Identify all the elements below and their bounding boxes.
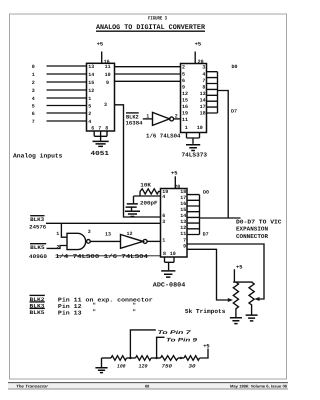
svg-text:10: 10 bbox=[197, 125, 203, 131]
svg-text:D0: D0 bbox=[232, 64, 238, 70]
svg-text:11: 11 bbox=[180, 231, 186, 237]
svg-text:ADC-0804: ADC-0804 bbox=[153, 282, 186, 289]
analog input wire 0 bbox=[32, 64, 87, 70]
svg-text:3: 3 bbox=[162, 219, 165, 225]
svg-text:6: 6 bbox=[182, 78, 185, 84]
trimpot R right 5k bbox=[249, 282, 254, 314]
inverter U6 1/6 74LS04 bbox=[121, 231, 148, 248]
label D0 upper bbox=[232, 64, 238, 70]
title FIGURE 3 bbox=[148, 16, 167, 22]
+5 supply at trimpots bbox=[233, 264, 252, 282]
svg-text:15: 15 bbox=[88, 80, 94, 86]
svg-text:2: 2 bbox=[32, 80, 35, 86]
legend net BLK5 pin 13 bbox=[30, 308, 136, 316]
svg-text:8: 8 bbox=[202, 85, 205, 91]
svg-text:3: 3 bbox=[32, 88, 35, 94]
label D0 lower bbox=[203, 189, 209, 195]
svg-text:14: 14 bbox=[88, 72, 94, 78]
svg-text:3: 3 bbox=[202, 65, 205, 71]
legend net BLK2 pin 11 bbox=[30, 295, 154, 303]
wire 4051 pin9 to 373 pin6 bbox=[115, 80, 181, 82]
resistor R100 bbox=[111, 356, 127, 370]
title ANALOG TO DIGITAL CONVERTER bbox=[96, 24, 206, 32]
svg-text:D0-D7 TO VIC: D0-D7 TO VIC bbox=[236, 218, 282, 225]
wire 4051 pin3 to ADC pin6 bbox=[115, 105, 161, 217]
svg-text:19: 19 bbox=[182, 111, 188, 117]
svg-text:5: 5 bbox=[88, 103, 91, 109]
resistor 10K bbox=[140, 182, 161, 195]
svg-text:5: 5 bbox=[182, 72, 185, 78]
analog input wire 1 bbox=[32, 72, 87, 78]
svg-text:120: 120 bbox=[139, 364, 148, 370]
svg-text:2: 2 bbox=[56, 244, 59, 250]
svg-text:5: 5 bbox=[32, 103, 35, 109]
svg-text:To Pin 7: To Pin 7 bbox=[158, 330, 193, 336]
svg-text:13: 13 bbox=[200, 91, 206, 97]
data bus stubs of ADC bbox=[187, 195, 200, 235]
wire 4051 pin10 to 373 pin5 bbox=[115, 73, 181, 75]
analog input wire 5 bbox=[32, 103, 87, 109]
svg-text:7: 7 bbox=[32, 119, 35, 125]
svg-text:200pF: 200pF bbox=[140, 200, 158, 207]
svg-text:1: 1 bbox=[32, 72, 35, 78]
svg-text:+5: +5 bbox=[171, 170, 177, 176]
label Analog inputs bbox=[13, 153, 63, 160]
svg-text:7: 7 bbox=[202, 78, 205, 84]
svg-text:D7: D7 bbox=[231, 109, 237, 115]
svg-text:2: 2 bbox=[88, 111, 91, 117]
svg-text:+5: +5 bbox=[203, 344, 209, 350]
svg-text:11: 11 bbox=[105, 64, 111, 70]
svg-text:+5: +5 bbox=[236, 264, 242, 270]
svg-text:4051: 4051 bbox=[91, 150, 110, 157]
wire R30 to +5 bbox=[200, 344, 210, 358]
wire ADC pin7 to right trimpot wiper bbox=[187, 244, 264, 301]
ground at left trimpot bbox=[230, 318, 242, 324]
svg-text:1: 1 bbox=[185, 125, 188, 131]
ground at divider left end bbox=[95, 358, 107, 373]
inverter U3 1/6 74LS04 bbox=[153, 112, 174, 125]
label D0-D7 TO VIC EXPANSION CONNECTOR bbox=[236, 218, 282, 239]
IC U1 4051 analog multiplexer bbox=[87, 59, 115, 132]
wire resistor to ADC pin 4 bbox=[134, 191, 161, 196]
label 4051 bbox=[91, 150, 110, 157]
svg-text:10: 10 bbox=[170, 251, 176, 257]
svg-text:1: 1 bbox=[162, 238, 165, 244]
svg-text:7: 7 bbox=[98, 125, 101, 131]
net label BLK5 40960 bbox=[29, 244, 47, 260]
svg-text:8: 8 bbox=[163, 251, 166, 257]
svg-text:14: 14 bbox=[200, 98, 206, 104]
resistor R120 bbox=[136, 356, 152, 370]
inverter U3 output pin2 wire to 373 pin11 bbox=[174, 114, 181, 120]
svg-text:+5: +5 bbox=[195, 41, 201, 47]
label D7 lower bbox=[203, 232, 209, 238]
svg-text:6: 6 bbox=[32, 111, 35, 117]
svg-text:13: 13 bbox=[105, 232, 111, 238]
svg-text:Pin 13: Pin 13 bbox=[58, 309, 82, 316]
svg-text:4: 4 bbox=[162, 194, 165, 200]
svg-text:24576: 24576 bbox=[29, 224, 46, 230]
legend net BLK3 pin 12 bbox=[30, 302, 136, 310]
ground at right trimpot bbox=[246, 315, 258, 321]
net label BLK3 24576 bbox=[29, 216, 46, 231]
ground at 4051 pins 6 7 8 bbox=[93, 131, 109, 146]
label 74LS373 bbox=[182, 151, 208, 158]
svg-text:10: 10 bbox=[105, 72, 111, 78]
svg-text:D7: D7 bbox=[203, 232, 209, 238]
analog input wire 2 bbox=[32, 80, 87, 86]
tap wire To Pin 7 bbox=[130, 330, 192, 358]
svg-text:3: 3 bbox=[88, 229, 91, 235]
svg-text:": " bbox=[93, 309, 96, 316]
analog input wire 3 bbox=[32, 88, 87, 94]
svg-text:10K: 10K bbox=[140, 182, 151, 189]
svg-text:12: 12 bbox=[88, 88, 94, 94]
ground at 373 pins 1 10 bbox=[186, 133, 200, 151]
svg-text:The Transactor: The Transactor bbox=[16, 384, 49, 389]
+5 supply at 74LS373 pin 20 bbox=[195, 41, 201, 63]
ground at capacitor bbox=[125, 207, 140, 216]
capacitor 200pF bbox=[126, 196, 158, 207]
svg-text:9: 9 bbox=[182, 85, 185, 91]
svg-text:11: 11 bbox=[182, 117, 188, 123]
svg-text:16384: 16384 bbox=[126, 120, 144, 126]
svg-text:4: 4 bbox=[202, 72, 205, 78]
footer rule top bbox=[8, 382, 288, 384]
svg-text:1/4 74LS00 1/6 74LS04: 1/4 74LS00 1/6 74LS04 bbox=[55, 253, 149, 260]
svg-text:6: 6 bbox=[91, 125, 94, 131]
svg-text:18: 18 bbox=[200, 111, 206, 117]
wire BLK2 to inverter U3 input pin1 bbox=[143, 114, 153, 120]
analog input wire 4 bbox=[32, 96, 87, 102]
svg-text:17: 17 bbox=[200, 104, 206, 110]
wire node junction bbox=[178, 357, 184, 359]
bus wire 373 to ADC bbox=[200, 91, 241, 219]
wire drop to NAND input 1 bbox=[56, 223, 67, 237]
wire node tap1 bbox=[127, 357, 136, 359]
svg-text:4: 4 bbox=[88, 119, 91, 125]
wire ground to R100 bbox=[102, 357, 112, 359]
label ADC-0804 bbox=[153, 282, 186, 289]
svg-text:0: 0 bbox=[32, 64, 35, 70]
footer rule bottom bbox=[8, 388, 288, 390]
+5 supply at ADC pin 20 bbox=[171, 170, 177, 188]
svg-text:1: 1 bbox=[56, 231, 59, 237]
svg-text:+5: +5 bbox=[97, 41, 103, 47]
svg-text:100: 100 bbox=[117, 364, 126, 370]
svg-text:16: 16 bbox=[182, 104, 188, 110]
svg-text:9: 9 bbox=[106, 80, 109, 86]
svg-text:9: 9 bbox=[183, 243, 186, 249]
data bus stubs of 74LS373 bbox=[207, 72, 218, 113]
+5 supply at 4051 pin 16 bbox=[97, 41, 103, 63]
wire under gate labels bbox=[58, 255, 161, 257]
svg-text:May 1986: Volume 6, Issue 06: May 1986: Volume 6, Issue 06 bbox=[230, 384, 288, 389]
label 1/6 74LS04 bbox=[146, 132, 181, 139]
label 1/4 74LS00 1/6 74LS04 bbox=[55, 253, 149, 260]
wire 4051 pin11 to 373 pin2 bbox=[115, 66, 181, 68]
resistor R750 bbox=[161, 356, 179, 370]
svg-text:13: 13 bbox=[88, 64, 94, 70]
svg-text:": " bbox=[133, 309, 136, 316]
tap wire To Pin 9 bbox=[157, 337, 198, 358]
wire inverter U6 output to ADC pin1 bbox=[147, 240, 160, 242]
svg-text:40960: 40960 bbox=[29, 254, 47, 260]
label 5k Trimpots bbox=[185, 308, 226, 315]
svg-text:BLK5: BLK5 bbox=[30, 245, 45, 251]
svg-text:8: 8 bbox=[105, 125, 108, 131]
wire BLK3 to NAND pin1 and ADC pin3 bbox=[46, 222, 161, 224]
svg-text:FIGURE 3: FIGURE 3 bbox=[148, 16, 167, 22]
resistor R30 bbox=[184, 356, 200, 370]
svg-text:3: 3 bbox=[104, 102, 107, 108]
NAND gate U5 1/4 74LS00 bbox=[67, 229, 91, 250]
svg-text:74LS373: 74LS373 bbox=[182, 151, 208, 158]
svg-text:2: 2 bbox=[175, 114, 178, 120]
ground at ADC pins 8 10 bbox=[161, 257, 175, 277]
svg-text:EXPANSION: EXPANSION bbox=[236, 226, 269, 233]
svg-text:15: 15 bbox=[182, 98, 188, 104]
label D7 upper bbox=[231, 109, 237, 115]
analog input wire 6 bbox=[32, 111, 87, 117]
svg-text:Analog inputs: Analog inputs bbox=[13, 153, 63, 160]
svg-text:12: 12 bbox=[127, 231, 133, 237]
footer band bbox=[8, 383, 288, 389]
svg-text:1/6 74LS04: 1/6 74LS04 bbox=[146, 132, 181, 139]
svg-text:1: 1 bbox=[146, 114, 149, 120]
net label BLK2 16384 bbox=[126, 113, 144, 127]
svg-text:D0: D0 bbox=[203, 189, 209, 195]
svg-text:1: 1 bbox=[88, 96, 91, 102]
svg-text:750: 750 bbox=[162, 364, 173, 370]
svg-text:2: 2 bbox=[182, 65, 185, 71]
trimpot R left 5k bbox=[233, 282, 238, 317]
svg-text:6: 6 bbox=[162, 213, 165, 219]
IC U4 ADC-0804 bbox=[161, 184, 188, 257]
IC U2 74LS373 latch bbox=[181, 59, 207, 133]
analog input wire 7 bbox=[32, 119, 87, 125]
svg-text:5k Trimpots: 5k Trimpots bbox=[185, 308, 226, 315]
svg-text:4: 4 bbox=[32, 96, 35, 102]
svg-text:CONNECTOR: CONNECTOR bbox=[236, 233, 269, 240]
svg-text:BLK5: BLK5 bbox=[30, 310, 45, 316]
wire ADC pin9 to left trimpot wiper bbox=[187, 249, 233, 302]
svg-text:30: 30 bbox=[189, 364, 196, 370]
wire BLK5 to NAND input 2 bbox=[47, 244, 68, 250]
svg-text:12: 12 bbox=[182, 91, 188, 97]
svg-text:BLK3: BLK3 bbox=[30, 217, 44, 223]
wire node tap2 bbox=[151, 357, 161, 359]
svg-text:To Pin 9: To Pin 9 bbox=[166, 337, 197, 343]
wire NAND output to inverter U6 bbox=[90, 232, 120, 242]
